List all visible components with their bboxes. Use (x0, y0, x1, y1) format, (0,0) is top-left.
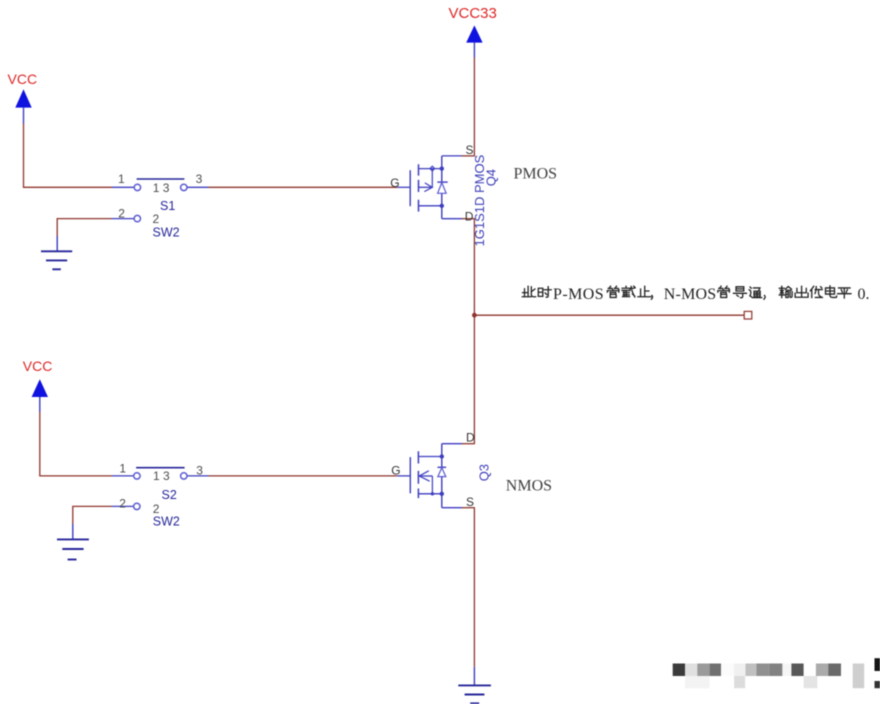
wire VCC to S1 pin1 (24, 124, 113, 188)
junction output node (472, 313, 477, 318)
svg-text:P-MOS: P-MOS (553, 286, 604, 303)
svg-text:G: G (391, 464, 400, 478)
annotation text: 此时P-MOS管截止，N-MOS管导通，输出低电平 0. (522, 286, 851, 299)
wire S1 pin2 to ground (57, 219, 111, 251)
svg-text:1 3: 1 3 (153, 469, 170, 483)
node output terminal (744, 311, 752, 319)
svg-text:VCC: VCC (8, 71, 38, 87)
switch S2 (112, 468, 209, 510)
transistor Q4 (PMOS) (397, 156, 475, 219)
svg-text:N-MOS: N-MOS (664, 286, 717, 303)
wire S1 pin3 to Q4 gate (209, 186, 398, 188)
transistor Q3 (NMOS) (397, 444, 475, 508)
svg-text:SW2: SW2 (153, 515, 180, 529)
wire S2 pin2 to ground (73, 506, 112, 538)
watermark mosaic (bottom right) (673, 658, 880, 688)
power port VCC (bottom) (23, 358, 53, 412)
wire VCC33 to Q4 source (462, 58, 475, 156)
svg-text:1 3: 1 3 (153, 181, 170, 195)
svg-text:SW2: SW2 (153, 226, 180, 240)
power port VCC33 (449, 5, 497, 58)
wire Q4 drain to Q3 drain (output node) (473, 219, 475, 444)
svg-text:Q3: Q3 (477, 464, 492, 481)
svg-text:NMOS: NMOS (506, 477, 552, 494)
ground (bottom center) (458, 685, 491, 703)
switch S1 (112, 179, 209, 222)
svg-text:VCC33: VCC33 (449, 5, 497, 22)
svg-text:1: 1 (119, 461, 126, 475)
power port VCC (top) (8, 71, 38, 124)
svg-text:2: 2 (118, 207, 125, 221)
svg-text:PMOS: PMOS (514, 166, 558, 183)
svg-text:Q4: Q4 (484, 169, 499, 186)
wire Q3 source to ground (473, 508, 475, 685)
svg-text:3: 3 (196, 172, 203, 186)
ground (bottom left) (57, 539, 89, 559)
svg-text:0.: 0. (858, 286, 870, 303)
ground (top left) (41, 251, 72, 269)
svg-text:S: S (466, 495, 474, 509)
svg-text:S2: S2 (162, 488, 177, 502)
svg-text:2: 2 (153, 212, 160, 226)
wire VCC to S2 pin1 (40, 412, 112, 476)
svg-text:3: 3 (196, 464, 203, 478)
wire S2 pin3 to Q3 gate (209, 475, 398, 477)
svg-text:VCC: VCC (23, 358, 53, 374)
wire output (474, 314, 744, 316)
svg-text:G: G (390, 176, 399, 190)
svg-text:2: 2 (119, 497, 126, 511)
svg-text:S1: S1 (160, 199, 175, 213)
svg-text:1: 1 (118, 172, 125, 186)
svg-text:D: D (466, 431, 475, 445)
